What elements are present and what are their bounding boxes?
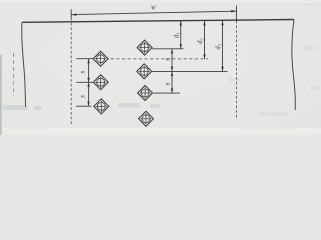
crease mark left margin [13, 53, 15, 96]
svg-text:s: s [78, 71, 86, 74]
ghost bleed-through smudges (scan artifacts) [2, 46, 320, 116]
punch mark B2 [137, 64, 152, 79]
strip top edge [22, 20, 294, 23]
svg-text:W: W [151, 4, 157, 11]
row extension A1 left [77, 58, 94, 60]
svg-text:s: s [163, 83, 171, 86]
W arrow left [71, 13, 76, 15]
right break line (wavy cut edge) [292, 20, 295, 111]
punch mark B4 [139, 111, 154, 126]
d3 dimension line [222, 21, 224, 72]
W dimension line [71, 11, 236, 14]
svg-text:s: s [163, 58, 171, 61]
punch mark B1 [137, 40, 152, 55]
W dimension extension line right (solid then dashed) [235, 6, 237, 21]
punch mark A3 [94, 99, 109, 114]
svg-text:s: s [78, 95, 86, 98]
row line B3 [154, 92, 181, 94]
punch mark A1 (diamond with target circle) [93, 51, 108, 66]
row extension A3 left [76, 105, 92, 107]
d2 dimension line [204, 21, 206, 59]
left break line (wavy cut edge) [22, 22, 26, 107]
W dimension extension line left (solid then dashed centerline) [70, 9, 72, 18]
W arrow right [231, 10, 236, 12]
punch mark A2 [93, 75, 108, 90]
s chain dimension line left [88, 59, 90, 106]
s chain dimension line right [171, 49, 173, 93]
paper background [0, 0, 321, 135]
punch mark B3 [138, 86, 153, 101]
row line B2 [152, 70, 228, 72]
row centerline A1 (dashed) [111, 58, 208, 60]
row line B1 [152, 48, 183, 50]
d1 dimension line [180, 21, 182, 49]
row extension A2 left [77, 81, 94, 83]
